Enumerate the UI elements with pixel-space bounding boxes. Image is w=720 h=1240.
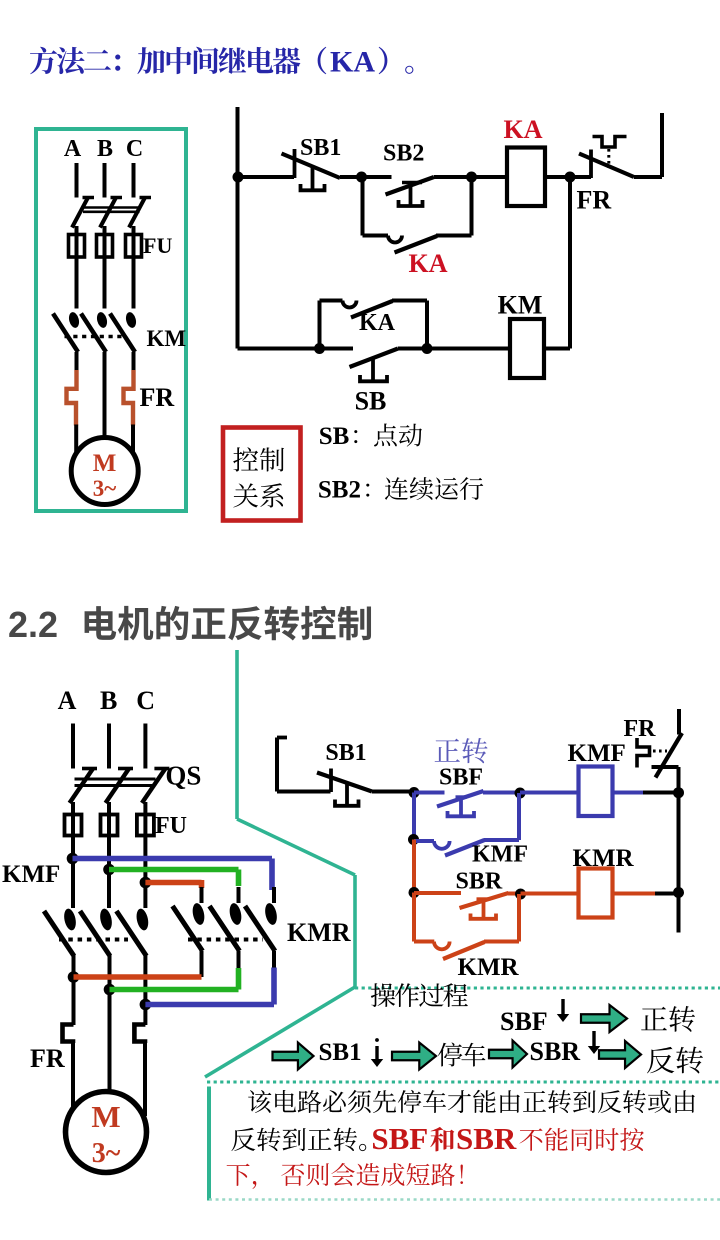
wire SB1 to node: [340, 175, 362, 179]
relay coil KA: [507, 148, 545, 207]
svg-text:SBF: SBF: [500, 1007, 548, 1036]
label SBF (flow): [500, 1007, 548, 1036]
wire phase C top (bottom circuit): [143, 724, 147, 769]
label FU (bottom): [155, 813, 187, 839]
wire node to KA coil: [472, 175, 508, 179]
pushbutton SB2 (NO): [386, 177, 435, 206]
wire QS to fuse phase A: [71, 802, 75, 836]
label FR (bottom): [30, 1044, 65, 1073]
KM linkage dotted line: [65, 335, 124, 339]
pushbutton SBR (NO, orange): [460, 893, 509, 919]
flow arrow SBR to 反转: [599, 1041, 641, 1068]
teal vertical bar (warning box left): [207, 1087, 211, 1201]
fuse FU phase A: [69, 235, 85, 258]
down arrow after SB1: [371, 1038, 383, 1067]
svg-text:SBR: SBR: [530, 1037, 581, 1066]
node phase A / blue wire: [67, 853, 79, 865]
motor M 3~ (bottom): [66, 1092, 147, 1173]
thermal relay FR contact (NC): [579, 137, 634, 179]
wire QS to fuse phase B: [107, 802, 111, 836]
wire FR to motor phase C: [131, 425, 135, 453]
main-circuit box (teal border): [36, 129, 186, 511]
right supply rail (top circuit): [660, 113, 664, 177]
label SBF: [439, 765, 483, 791]
KMR pole3 lower lead + blue return wire: [145, 951, 274, 1005]
flow arrow 停车 to SBR: [489, 1041, 527, 1068]
right rail top (bottom circuit): [677, 709, 681, 735]
wire KMF pole C down: [143, 955, 147, 1025]
wire phase B top: [103, 163, 107, 198]
svg-text:KM: KM: [498, 291, 543, 320]
svg-text:SB: SB: [355, 387, 387, 416]
svg-text:SBF: SBF: [439, 765, 483, 791]
node SBR left: [409, 887, 420, 898]
svg-text:FR: FR: [30, 1044, 65, 1073]
wire node to KM coil: [427, 347, 510, 351]
teal faint dashed bottom line: [209, 1198, 720, 1200]
svg-text:KA: KA: [409, 249, 448, 278]
phase label A: [64, 136, 82, 162]
node SBR/KMR-aux: [515, 889, 526, 900]
disconnect switch linkage bars: [83, 208, 140, 212]
text 停车: [438, 1042, 486, 1066]
motor label 3~ (bottom): [92, 1138, 121, 1169]
fuse FU phase C: [126, 235, 142, 258]
orange riser to SBR row: [412, 840, 416, 893]
KMR pole1 lower lead + orange return wire: [74, 951, 202, 977]
svg-text:M: M: [93, 450, 117, 477]
contactor coil KM: [510, 319, 544, 378]
KMR auxiliary contact (orange): [414, 893, 519, 960]
svg-text:FU: FU: [155, 813, 187, 839]
node KA/SB right: [422, 343, 433, 354]
wire node to FR: [570, 175, 591, 179]
svg-text:KA: KA: [359, 310, 396, 336]
legend SB2: [318, 477, 483, 504]
pushbutton SB (NO): [350, 349, 399, 382]
wire fuse to KM contact phase C: [132, 257, 136, 309]
fuse FU phase A (bottom): [65, 815, 82, 836]
wire FR to right rail: [634, 175, 662, 179]
svg-text:3~: 3~: [92, 1138, 121, 1169]
disconnect switch blade phase A: [72, 198, 94, 228]
node C / blue return: [140, 999, 152, 1011]
node SB1/SB2/KA: [356, 172, 367, 183]
svg-text:KA: KA: [504, 115, 543, 144]
title 方法二：加中间继电器（KA）。: [30, 46, 413, 79]
svg-text:2.2: 2.2: [8, 604, 58, 645]
wire KM coil to right: [544, 347, 570, 351]
svg-text:SB2: SB2: [318, 477, 361, 504]
svg-text:KMR: KMR: [573, 845, 635, 872]
green wire (B to KMR pole2): [109, 870, 239, 887]
svg-text:KMR: KMR: [458, 954, 520, 981]
wire switch to fuse phase A: [75, 226, 79, 258]
wire rail to SB1: [238, 175, 295, 179]
motor label M: [93, 450, 117, 477]
svg-text:SB1: SB1: [325, 740, 366, 766]
svg-text:KMF: KMF: [472, 842, 528, 868]
contactor coil KMR (orange): [579, 869, 613, 918]
heading 2.2 电机的正反转控制: [8, 604, 371, 645]
wire FR to motor phase A: [74, 425, 78, 453]
switch QS blade phase B: [106, 769, 134, 804]
wire fuse to KMF phase A: [71, 836, 75, 909]
label SB1: [300, 135, 341, 161]
wire phase A top: [75, 163, 79, 198]
phase label B: [97, 136, 113, 162]
svg-text:QS: QS: [165, 761, 201, 791]
svg-text:FR: FR: [624, 716, 657, 742]
wire SBF to node (blue): [483, 791, 520, 795]
svg-text:C: C: [136, 686, 155, 715]
blue riser to KMF-aux row: [412, 793, 416, 840]
wire phase A top (bottom circuit): [71, 724, 75, 769]
switch QS linkage bars: [75, 779, 156, 786]
KM main contact phase A: [53, 311, 81, 352]
FR heater element phase C (bottom): [134, 1025, 145, 1044]
wire switch to fuse phase C: [132, 226, 136, 258]
wire SB to node: [398, 347, 427, 351]
svg-text:SB1: SB1: [300, 135, 341, 161]
fuse FU phase C (bottom): [137, 815, 154, 836]
wire KMF pole B down: [108, 955, 112, 1092]
KMR pole2 lower lead + green return wire: [110, 951, 239, 990]
wire SB1 to node: [372, 790, 414, 794]
wire node to SB2: [362, 175, 392, 179]
teal callout diagonal lower: [205, 987, 355, 1077]
svg-text:C: C: [126, 136, 143, 162]
label SB2: [383, 141, 424, 167]
wire fuse to KMF phase B: [107, 836, 111, 909]
wire fuse to KM contact phase B: [103, 257, 107, 309]
label SBR (flow): [530, 1037, 581, 1066]
FR heater element phase A: [67, 370, 77, 426]
label FU: [143, 233, 172, 258]
label SB1 (flow): [319, 1039, 362, 1066]
motor label 3~: [93, 476, 117, 501]
KMR linkage dotted: [188, 938, 263, 942]
KMF main contact pole 2: [80, 908, 114, 956]
label KM: [147, 326, 187, 351]
node phase C / orange wire: [140, 877, 152, 889]
text 关系: [233, 483, 283, 507]
node KA/FR/KM: [565, 172, 576, 183]
wire SB2 to node: [434, 175, 472, 179]
wire node to KMF coil (blue): [520, 791, 579, 795]
disconnect switch blade phase C: [129, 198, 151, 228]
node B / green return: [104, 984, 116, 996]
label FR: [577, 186, 612, 215]
teal dotted separator (操作过程): [355, 987, 720, 990]
text 正转 (flow row1): [641, 1006, 695, 1032]
wire KM to FR phase A: [75, 352, 79, 371]
KMR main contact pole 3: [245, 887, 279, 951]
node phase B / green wire: [103, 864, 115, 876]
blue crossover wire (A to KMR pole3): [73, 859, 273, 891]
supply stub for SB1 (bottom circuit): [277, 738, 331, 792]
svg-text:SB: SB: [319, 423, 350, 450]
KA contact branch (bottom row): [320, 301, 428, 349]
svg-text:FR: FR: [140, 383, 175, 412]
teal callout line (vertical from heading): [235, 650, 239, 819]
label SB1 (bottom): [325, 740, 366, 766]
wire QS to fuse phase C: [143, 802, 147, 836]
phase label B (bottom): [100, 686, 117, 715]
svg-text:KA: KA: [330, 46, 375, 79]
label QS: [165, 761, 201, 791]
label 正转 (blue): [435, 738, 488, 763]
KMR main contact pole 1: [173, 887, 207, 951]
wire SBR to node (orange): [508, 892, 521, 896]
down arrow after SBR: [588, 1031, 600, 1054]
fuse FU phase B (bottom): [101, 815, 118, 836]
flow arrow SB1 to 停车: [392, 1043, 436, 1070]
KMF auxiliary contact (blue): [414, 793, 519, 856]
node SB2/KA-contact: [466, 172, 477, 183]
wire node to KMR coil (orange): [521, 892, 579, 896]
wire FR to motor phase C: [143, 1042, 147, 1117]
label KA (black, contact): [359, 310, 396, 336]
svg-text:FR: FR: [577, 186, 612, 215]
wire FR to motor phase A: [71, 1042, 75, 1111]
node right rail KMF: [673, 787, 684, 798]
phase label A (bottom): [58, 686, 77, 715]
svg-text:B: B: [97, 136, 113, 162]
phase label C: [126, 136, 143, 162]
wire node down to KM row: [568, 177, 572, 349]
label FR: [140, 383, 175, 412]
label KM (coil): [498, 291, 543, 320]
svg-text:SB1: SB1: [319, 1039, 362, 1066]
wire KMF pole A down: [72, 955, 76, 1025]
svg-text:A: A: [64, 136, 82, 162]
svg-text:SBF: SBF: [371, 1121, 428, 1156]
KM main contact phase C: [110, 311, 138, 352]
warning line 2: [231, 1121, 644, 1156]
text 操作过程: [371, 983, 468, 1007]
label KMF (aux contact): [472, 842, 528, 868]
label KMR (aux contact): [458, 954, 520, 981]
label KMR (coil): [573, 845, 635, 872]
svg-text:KMF: KMF: [2, 861, 60, 888]
label SB: [355, 387, 387, 416]
wire KMF coil to right rail: [613, 791, 679, 795]
svg-text:KMR: KMR: [287, 918, 351, 947]
teal callout vertical mid: [353, 875, 357, 987]
pushbutton SBF (NO, blue): [437, 791, 484, 817]
KM main contact phase B: [81, 311, 109, 352]
flow arrow into SB1: [273, 1043, 314, 1070]
switch QS blade phase C: [142, 769, 170, 804]
wire KMR coil to right rail: [613, 892, 679, 896]
label KA (red, coil): [504, 115, 543, 144]
orange crossover wire (C to KMR pole1): [145, 880, 201, 888]
warning line 3: [227, 1163, 463, 1189]
wire KA coil to node: [545, 175, 570, 179]
svg-text:FU: FU: [143, 233, 172, 258]
down arrow after SBF: [557, 999, 569, 1022]
motor label M (bottom): [91, 1099, 120, 1134]
svg-text:SBR: SBR: [456, 869, 503, 895]
wire KM to motor phase B: [103, 352, 107, 439]
wire fuse to KM contact phase A: [75, 257, 79, 309]
pushbutton SB1 (NC, bottom): [317, 769, 372, 806]
right rail (bottom circuit): [677, 767, 681, 933]
node SBF/KMF-aux: [515, 788, 526, 799]
KMF main contact pole 1: [44, 908, 78, 956]
fuse FU phase B: [97, 235, 113, 258]
svg-text:SBR: SBR: [456, 1121, 517, 1156]
svg-text:SB2: SB2: [383, 141, 424, 167]
node SB1/SBF: [409, 787, 420, 798]
svg-text:KM: KM: [147, 326, 187, 351]
label KMF (coil): [568, 740, 626, 767]
FR heater element phase C: [124, 370, 134, 426]
node A / orange return: [68, 971, 80, 983]
wire node to SBR (orange): [414, 891, 461, 895]
node SBF/KMF-aux left: [408, 834, 419, 845]
disconnect switch blade phase B: [100, 198, 122, 228]
wire KM to FR phase C: [132, 352, 136, 371]
node KA/SB left: [314, 343, 325, 354]
wire fuse to KMF phase C: [143, 836, 147, 909]
label KA (red, contact): [409, 249, 448, 278]
bottom row wire from left rail: [238, 347, 320, 351]
svg-text:M: M: [91, 1099, 120, 1134]
svg-text:B: B: [100, 686, 117, 715]
KMF main contact pole 3: [116, 908, 150, 956]
thermal relay FR contact (NC, bottom circuit): [637, 733, 682, 778]
wire switch to fuse phase B: [103, 226, 107, 258]
legend SB: [319, 423, 422, 450]
pushbutton SB1 (NC): [282, 149, 341, 191]
wire phase B top (bottom circuit): [107, 724, 111, 769]
teal callout diagonal upper: [237, 819, 355, 875]
text 反转 (flow row2): [647, 1047, 703, 1074]
label KMF: [2, 861, 60, 888]
label KMR (main contacts): [287, 918, 351, 947]
FR heater element phase A (bottom): [63, 1025, 74, 1044]
svg-text:KMF: KMF: [568, 740, 626, 767]
wire node to SB: [320, 347, 354, 351]
wire phase C top: [132, 163, 136, 198]
KA self-holding contact branch (top): [363, 177, 472, 253]
wire node to SBF (blue): [414, 791, 445, 795]
warning line 1: [248, 1090, 695, 1113]
KMR main contact pole 2: [210, 887, 244, 951]
node right rail KMR: [673, 887, 684, 898]
flow arrow SBF to 正转: [581, 1005, 627, 1032]
phase label C (bottom): [136, 686, 155, 715]
node on left rail: [233, 172, 244, 183]
label SBR: [456, 869, 503, 895]
svg-text:3~: 3~: [93, 476, 117, 501]
teal dotted separator (warning box top): [207, 1081, 720, 1084]
label FR (bottom circuit): [624, 716, 657, 742]
KMF linkage dotted: [59, 938, 128, 942]
switch QS blade phase A: [70, 769, 98, 804]
control-relation box (red): [223, 428, 301, 521]
text 控制: [233, 447, 284, 471]
left supply rail (top circuit): [236, 107, 240, 349]
svg-text:A: A: [58, 686, 77, 715]
motor M 3~ (top): [71, 438, 138, 505]
contactor coil KMF (blue): [579, 767, 613, 817]
